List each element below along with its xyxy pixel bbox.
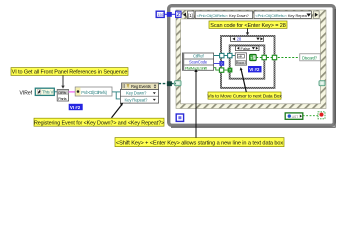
VI #2 label (inner case) [248,66,262,72]
case selector label False [236,46,260,51]
subVI icon VI #2 [235,53,246,65]
timeout terminal [176,11,181,17]
while loop conditional terminal (stop if true) [318,112,325,119]
svg-text:28: 28 [237,37,242,42]
label: VI to Get all Front Panel References in Sequence [11,68,128,76]
dynamic event terminal left [175,81,181,86]
event header left arrow [183,13,186,17]
wire subVI to Key Down row [112,91,120,93]
tunnel reg events on loop border [167,81,172,86]
event structure border top band [176,10,326,19]
svg-text:Reg Events: Reg Events [131,84,151,89]
wire boolean dashed to Discard [256,57,300,59]
while loop shadow [171,9,335,127]
event structure border bottom band [176,104,326,109]
boolean stop terminal [285,113,303,119]
svg-text:Discard?: Discard? [302,55,318,60]
wire PlatMods.Shift to inner case selector [214,68,228,70]
label: Shift Key + Enter Key allows starting a new line [115,138,284,147]
case structure outer (28) [221,36,275,88]
case selector terminal (?) green on inner case [228,68,233,73]
svg-text:<Pnl>Ctl(CtlRefs>: Key Down?: <Pnl>Ctl(CtlRefs>: Key Down? [197,13,250,18]
event header menu arrow [307,14,311,17]
event structure border outline [176,10,326,109]
wire stop dashed [303,115,318,117]
svg-text:Key Repeat?: Key Repeat? [125,98,148,103]
subVI Pnl>Ctl(CtlRefs) icon+text [75,87,112,96]
svg-text:F: F [254,56,256,60]
label: VIs to Move Cursor to next Data Box [207,92,282,100]
svg-text:Panls: Panls [58,97,66,101]
svg-text:VI to Get all Front Panel Refe: VI to Get all Front Panel References in … [12,70,128,76]
dynamic event terminal right [319,81,325,86]
while loop [169,6,335,126]
wire CtlRef to case [214,55,236,57]
svg-text:Focus: Focus [237,60,245,64]
wire reg events (dashed teal) [159,83,177,85]
label: Scan code for <Enter Key> = 28 [209,21,287,29]
wire magenta property node to subVI [69,91,76,93]
event data node [182,53,213,71]
svg-text:VIRef: VIRef [20,91,33,97]
tunnel CtlRef on outer case [220,53,224,57]
tunnel boolean on outer case [272,55,276,59]
tunnel timeout on loop border [167,12,172,17]
svg-text:VIs to Move Cursor to next Dat: VIs to Move Cursor to next Data Box [207,94,282,100]
svg-text:CtlRef: CtlRef [193,54,204,59]
tunnel CtlRef on inner case [228,53,232,57]
svg-text:<Shift Key> + <Enter Key> allo: <Shift Key> + <Enter Key> allows startin… [116,141,283,147]
while loop iteration terminal [176,114,183,121]
svg-text:<Pnl>Ctl(CtlRefs>: Key Repea: <Pnl>Ctl(CtlRefs>: Key Repea [255,13,307,18]
svg-text:Pnl>Ctl(CtlRefs): Pnl>Ctl(CtlRefs) [81,90,107,95]
svg-text:Key Down?: Key Down? [126,91,147,96]
label: Registering Event for <Key Down?> and <Key Repeat?> [34,118,164,126]
svg-text:150: 150 [157,12,164,17]
wire timeout [164,13,175,15]
leader arrow from label to reg events node [112,103,124,118]
event structure border left band [176,10,181,109]
leader arrow from label to subVI VI#2 [240,67,247,92]
boolean True constant [250,54,257,60]
leader arrow from label to PlatMods.Shift [194,69,197,138]
case structure inner (False) [230,45,265,78]
svg-text:LIST: LIST [292,115,298,119]
wire branch to Key Repeat row [116,92,120,99]
svg-text:Scan code for <Enter Key> = 28: Scan code for <Enter Key> = 28 [210,23,285,29]
tunnel PlatMods on outer case [219,68,223,72]
tunnel boolean on inner case [262,55,266,59]
svg-text:Registering Event for <Key Dow: Registering Event for <Key Down?> and <K… [34,120,164,126]
svg-text:CtlRfs: CtlRfs [58,91,66,95]
svg-text:[1]: [1] [188,13,192,18]
VI #2 label (near property node) [69,104,83,110]
leader arrow from label to property node [61,75,64,88]
This VI reference constant [35,88,54,95]
Discard? event filter terminal [300,54,320,61]
case selector label 28 [231,36,264,41]
event structure border right band [320,10,326,109]
svg-text:VI #2: VI #2 [70,105,81,110]
property node [57,90,68,101]
event structure header label box [187,11,311,19]
svg-text:VI #2: VI #2 [249,67,260,72]
wire ScanCode to case selector [214,63,220,65]
register for events node [120,83,158,103]
leader arrow from label to case structure [246,28,249,35]
wire This VI to property node [54,91,57,93]
numeric constant (timeout value) [156,11,165,17]
case selector terminal (?) blue on outer case [219,61,224,66]
svg-text:ScanCode: ScanCode [189,60,208,65]
svg-text:This VI: This VI [42,89,54,94]
event header right arrow [314,11,320,19]
svg-text:False: False [241,46,252,51]
